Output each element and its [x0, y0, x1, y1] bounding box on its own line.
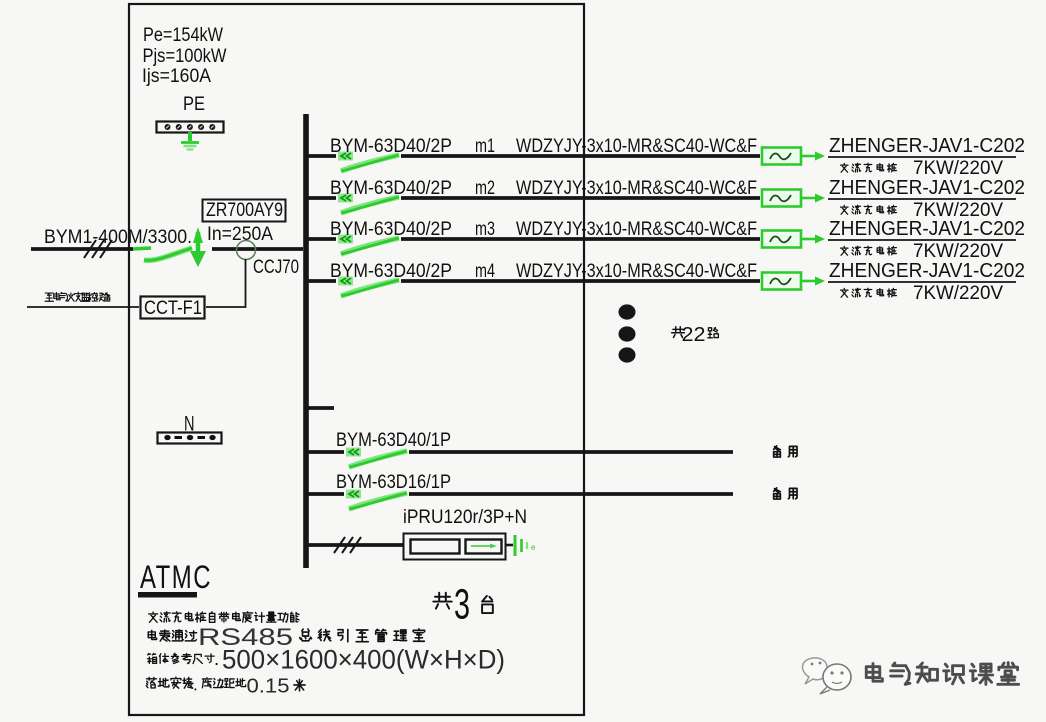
svg-text:BYM-63D40/2P: BYM-63D40/2P — [330, 136, 452, 157]
svg-text:CCT-F1: CCT-F1 — [144, 298, 202, 319]
svg-text:ZR700AY9: ZR700AY9 — [206, 200, 283, 221]
svg-text:3: 3 — [454, 581, 470, 629]
svg-text:7KW/220V: 7KW/220V — [913, 283, 1003, 304]
svg-text:BYM-63D40/2P: BYM-63D40/2P — [330, 261, 452, 282]
svg-text:BYM1-400M/3300.: BYM1-400M/3300. — [44, 227, 192, 248]
svg-text:BYM-63D40/2P: BYM-63D40/2P — [330, 219, 452, 240]
svg-text:ATMC: ATMC — [140, 559, 212, 595]
svg-text:WDZYJY-3x10-MR&SC40-WC&F: WDZYJY-3x10-MR&SC40-WC&F — [516, 261, 757, 282]
svg-text:BYM-63D40/1P: BYM-63D40/1P — [336, 430, 451, 451]
svg-text:7KW/220V: 7KW/220V — [913, 241, 1003, 262]
svg-text:7KW/220V: 7KW/220V — [913, 158, 1003, 179]
svg-text:ZHENGER-JAV1-C202: ZHENGER-JAV1-C202 — [829, 260, 1025, 282]
svg-text:ZHENGER-JAV1-C202: ZHENGER-JAV1-C202 — [829, 177, 1025, 199]
svg-text:e: e — [531, 543, 536, 552]
svg-text:m3: m3 — [475, 219, 495, 240]
svg-text:500×1600×400(W×H×D): 500×1600×400(W×H×D) — [222, 645, 505, 675]
svg-text:ZHENGER-JAV1-C202: ZHENGER-JAV1-C202 — [829, 135, 1025, 157]
svg-text:Ijs=160A: Ijs=160A — [142, 66, 211, 87]
svg-text:BYM-63D16/1P: BYM-63D16/1P — [336, 472, 451, 493]
svg-text:ZHENGER-JAV1-C202: ZHENGER-JAV1-C202 — [829, 218, 1025, 240]
svg-text:0.15: 0.15 — [247, 675, 290, 698]
svg-text:WDZYJY-3x10-MR&SC40-WC&F: WDZYJY-3x10-MR&SC40-WC&F — [516, 219, 757, 240]
svg-text:22: 22 — [682, 323, 706, 346]
svg-text:m2: m2 — [475, 178, 495, 199]
svg-text:Pe=154kW: Pe=154kW — [143, 25, 223, 46]
svg-text:iPRU120r/3P+N: iPRU120r/3P+N — [403, 507, 527, 528]
svg-text:CCJ70: CCJ70 — [253, 257, 299, 278]
svg-text:WDZYJY-3x10-MR&SC40-WC&F: WDZYJY-3x10-MR&SC40-WC&F — [516, 178, 757, 199]
svg-text:WDZYJY-3x10-MR&SC40-WC&F: WDZYJY-3x10-MR&SC40-WC&F — [516, 136, 757, 157]
svg-text:m1: m1 — [475, 136, 495, 157]
svg-text:In=250A: In=250A — [207, 224, 273, 245]
svg-text:Pjs=100kW: Pjs=100kW — [143, 46, 227, 67]
svg-text:BYM-63D40/2P: BYM-63D40/2P — [330, 178, 452, 199]
svg-text:PE: PE — [183, 94, 205, 115]
svg-text:m4: m4 — [475, 261, 495, 282]
